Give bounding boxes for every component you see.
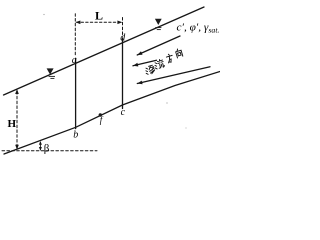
svg-text:c′, φ′, γsat.: c′, φ′, γsat. <box>177 23 220 35</box>
dimension line L <box>77 21 122 23</box>
ground surface line <box>4 7 205 95</box>
point f dot <box>99 113 102 116</box>
seepage arrow 3 <box>137 67 210 84</box>
dashed extension above d <box>122 18 124 38</box>
glyph liu <box>153 59 165 70</box>
slip surface line <box>4 72 220 155</box>
svg-text:a: a <box>72 55 77 66</box>
slice side a-b <box>75 58 77 128</box>
horizontal dashed base line <box>2 150 97 152</box>
L left arrowhead <box>75 21 80 25</box>
svg-text:H: H <box>8 118 17 130</box>
slice side d-c <box>122 38 124 108</box>
glyph xiang <box>175 48 183 58</box>
svg-text:f: f <box>100 115 104 125</box>
water table symbol left <box>47 68 54 74</box>
water table symbol top <box>155 19 162 25</box>
dimension line H <box>16 92 18 148</box>
seepage arrow 2 <box>133 60 157 66</box>
seepage direction text (hand-drawn glyphs) <box>142 48 185 75</box>
dashed extension above a <box>74 14 76 56</box>
svg-text:b: b <box>73 130 78 141</box>
H top arrowhead <box>15 89 19 94</box>
beta angle double arrow <box>39 142 41 149</box>
H bottom arrowhead <box>15 145 19 150</box>
svg-text:β: β <box>44 143 50 155</box>
scan noise specks <box>43 14 186 129</box>
glyph fang <box>166 53 174 63</box>
seepage arrow 1 <box>137 36 180 55</box>
L right arrowhead <box>117 21 122 25</box>
svg-text:c: c <box>121 107 126 118</box>
glyph shen <box>144 65 155 75</box>
svg-text:L: L <box>95 9 103 23</box>
